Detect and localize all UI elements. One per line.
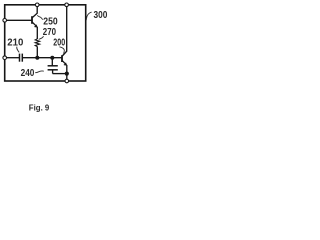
svg-text:240: 240 xyxy=(21,68,35,79)
svg-text:210: 210 xyxy=(7,37,23,48)
svg-text:300: 300 xyxy=(94,10,108,21)
svg-text:270: 270 xyxy=(43,27,56,38)
svg-text:200: 200 xyxy=(53,38,65,49)
svg-text:Fig. 9: Fig. 9 xyxy=(29,103,50,113)
svg-text:250: 250 xyxy=(43,17,58,28)
